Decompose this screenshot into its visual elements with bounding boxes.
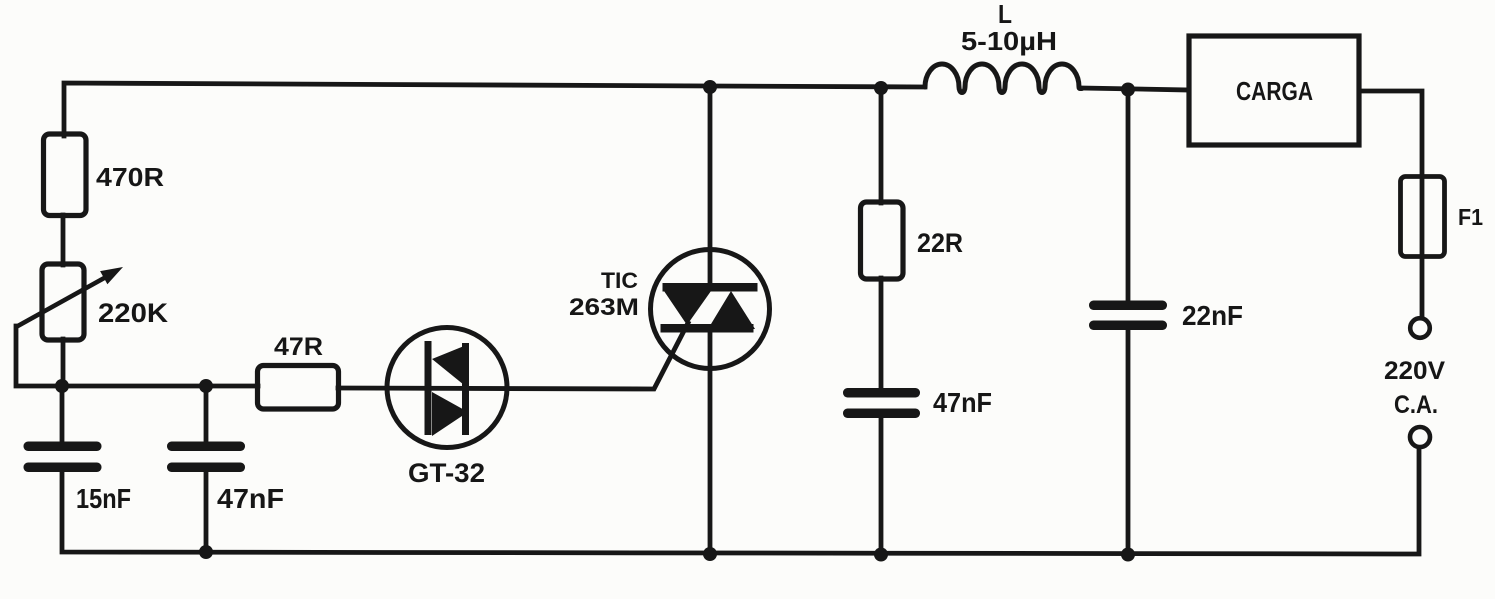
- svg-text:22nF: 22nF: [1182, 300, 1243, 331]
- node: 22R / top rail: [874, 81, 888, 95]
- node: pot bottom / mid rail: [55, 379, 69, 393]
- wire: triac MT2 from top rail: [708, 87, 713, 285]
- node: 22nF / top rail: [1121, 83, 1135, 97]
- node: 47nF left / mid rail: [199, 379, 213, 393]
- svg-text:TIC: TIC: [601, 268, 638, 293]
- wire: top rail from 470R top to inductor: [64, 83, 925, 136]
- wire: triac MT1 to bottom rail: [708, 330, 713, 554]
- resistor 470R: [44, 134, 165, 216]
- capacitor 47nF (left): [167, 442, 284, 515]
- wire: pot wiper down-lead and mid rail to 47R: [16, 326, 258, 386]
- AC terminal upper: [1410, 318, 1430, 338]
- wire: 22R branch from top rail: [879, 88, 884, 555]
- resistor 22R: [861, 202, 964, 279]
- svg-text:220V: 220V: [1384, 357, 1445, 385]
- svg-text:47R: 47R: [274, 333, 323, 361]
- capacitor 15nF: [24, 442, 132, 515]
- wire: 470R to 220K pot: [61, 215, 66, 265]
- wire: lower AC terminal to bottom rail: [62, 447, 1419, 554]
- inductor L 5-10uH: [925, 64, 1082, 93]
- svg-text:470R: 470R: [96, 162, 164, 192]
- svg-text:15nF: 15nF: [76, 483, 131, 514]
- fuse F1: [1401, 177, 1484, 257]
- wire: CARGA right to fuse and terminal: [1359, 91, 1422, 318]
- svg-text:GT-32: GT-32: [408, 458, 485, 488]
- node: 47nF left / bottom rail: [199, 545, 213, 559]
- svg-text:263M: 263M: [569, 294, 639, 321]
- resistor 47R: [258, 333, 339, 409]
- svg-text:CARGA: CARGA: [1236, 76, 1313, 106]
- capacitor 22nF: [1089, 300, 1243, 331]
- svg-text:F1: F1: [1458, 204, 1483, 230]
- svg-text:220K: 220K: [98, 298, 169, 328]
- wire: 47R to diac to triac gate bend: [338, 323, 688, 389]
- node: triac MT1 / bottom rail: [703, 547, 717, 561]
- wire: pot bottom to mid rail: [61, 339, 66, 386]
- svg-text:5-10µH: 5-10µH: [961, 26, 1057, 56]
- svg-text:47nF: 47nF: [933, 387, 992, 418]
- node: triac MT2 / top rail: [703, 80, 717, 94]
- wire: 22nF branch: [1126, 89, 1131, 555]
- svg-text:47nF: 47nF: [217, 483, 284, 514]
- wire: 15nF leads: [60, 386, 65, 442]
- svg-text:L: L: [998, 0, 1012, 29]
- svg-text:C.A.: C.A.: [1394, 391, 1438, 419]
- node: 22nF / bottom rail: [1121, 548, 1135, 562]
- wire: 47nF left leads: [204, 386, 209, 552]
- triac TIC 263M: [569, 250, 770, 369]
- AC terminal lower: [1410, 427, 1430, 447]
- diac GT-32: [387, 328, 507, 489]
- wire: inductor output to CARGA: [1082, 88, 1189, 90]
- capacitor 47nF (snubber): [843, 387, 992, 418]
- svg-text:22R: 22R: [917, 228, 963, 258]
- load box CARGA: [1189, 36, 1359, 145]
- potentiometer 220K: [16, 264, 169, 340]
- node: 47nF snubber / bottom rail: [874, 548, 888, 562]
